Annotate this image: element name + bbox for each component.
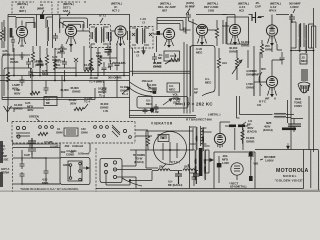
text 0.02 mmf xyxy=(64,144,83,148)
junction dots bus y75 xyxy=(13,75,15,77)
text 6MF 450V each xyxy=(263,121,273,132)
svg-text:/ 2: / 2 xyxy=(136,53,139,57)
rounded enclosure bottom left xyxy=(2,88,95,100)
tube V3 IF 6C7 xyxy=(115,26,126,41)
text 0.1 MEG in loop xyxy=(205,77,212,84)
text 3.75 MEG xyxy=(42,69,49,76)
plug contacts xyxy=(104,161,116,179)
resistor far-left edge xyxy=(0,22,3,48)
IFT2 assembly xyxy=(130,27,153,49)
6F5 plate to AF2 grid wire xyxy=(259,72,262,86)
wire V5 to V6 xyxy=(208,26,230,30)
horizontal bus y97 left xyxy=(2,97,130,99)
horizontal bus y115 double xyxy=(130,115,197,117)
text 45000 big area xyxy=(70,86,80,93)
electrolytic caps 18MF black bars xyxy=(225,125,248,128)
speaker lead verticals xyxy=(312,26,316,48)
text 10000 TL4 lower-left xyxy=(98,87,107,98)
label box RF stage xyxy=(12,2,52,14)
switch contacts left box xyxy=(69,162,81,181)
cap at plate V7 xyxy=(289,14,295,23)
tube V7 AF2 6F6 xyxy=(266,25,277,40)
arrow junction dots on bus xyxy=(64,80,66,82)
svg-text:X: X xyxy=(274,97,276,101)
switch box inner rect xyxy=(68,161,82,181)
text 45000 ohms 1W xyxy=(100,102,109,113)
spark plate caps xyxy=(28,138,36,155)
cap .01 near V4 xyxy=(152,53,163,63)
svg-text:WF: WF xyxy=(265,97,270,101)
text 500 MMF mid-right xyxy=(252,69,260,76)
osc cap xyxy=(53,33,58,41)
text 1500 ohms xyxy=(246,82,254,89)
junction dots right xyxy=(290,50,292,52)
power transformer core black bar xyxy=(199,148,203,176)
coil can rect over V1 xyxy=(16,18,34,29)
buffer coil right xyxy=(183,165,198,171)
top wires segments right half xyxy=(196,15,289,17)
wire bottom bus left join xyxy=(130,171,152,181)
resistor x91 xyxy=(89,58,92,68)
text 150mmF + cap blob xyxy=(142,79,158,94)
rect enclosure xyxy=(214,152,255,189)
text 2.75 meg xyxy=(54,60,64,67)
vertical drop x152 xyxy=(151,96,153,111)
IFT1 assembly xyxy=(90,25,111,48)
wire stub xyxy=(218,156,220,183)
tube V10 rect 6Z4 xyxy=(231,163,243,180)
arcs from center rail to vol area xyxy=(130,82,154,96)
vertical wires left of switch box xyxy=(22,150,60,184)
label DET2 xyxy=(204,2,218,13)
vibrator reed lines xyxy=(160,142,180,162)
text 5.1R 100 xyxy=(55,47,67,54)
horizontal bus y118 right xyxy=(291,118,303,120)
cap x110 xyxy=(108,60,113,70)
resistor R3 under osc xyxy=(45,48,48,76)
resistor x55 xyxy=(53,60,56,70)
text 0.1 MF 400V xyxy=(84,96,93,109)
grid return arrow xyxy=(142,47,145,55)
right vertical rail inner xyxy=(290,14,292,150)
V8 grid top wire xyxy=(272,60,282,76)
right area caps near V7 xyxy=(280,52,285,65)
text 10,000 ohms below xyxy=(153,61,170,68)
buffer cap 2 xyxy=(193,171,200,185)
text 0.5 MF top xyxy=(44,140,53,144)
wire V6 plate up xyxy=(222,15,235,25)
antenna symbol xyxy=(4,106,12,112)
padder trimmer X xyxy=(74,58,78,76)
text TO A battery column xyxy=(1,144,8,162)
cap below transformer xyxy=(192,174,197,186)
svg-text:CAP: CAP xyxy=(24,153,30,157)
2.5 V label xyxy=(108,49,112,56)
buffer coil left xyxy=(152,165,182,171)
vertical resistor 15000 xyxy=(241,127,244,144)
tone control cap bars right xyxy=(288,119,301,133)
antenna down-lead xyxy=(7,112,9,122)
resistor v at x100 xyxy=(98,56,101,66)
cap C mid2 xyxy=(115,58,120,71)
text 0.5 MF each xyxy=(168,180,182,187)
text .001 MFD 1600 xyxy=(222,154,229,165)
text 10000 ohms italic xyxy=(153,61,162,68)
antenna coil L1 left edge xyxy=(4,20,5,48)
wire A lead lower xyxy=(13,158,60,184)
0.25 meg resistor box right xyxy=(300,54,308,64)
resistor column x219 xyxy=(217,48,227,96)
junction dots bottom-left xyxy=(45,157,47,159)
svg-text:MF: MF xyxy=(46,101,50,105)
horizontal bus y80 xyxy=(0,80,130,82)
cap 0.3MF xyxy=(60,46,65,53)
coupling cap V6-V7 big xyxy=(252,12,262,23)
rf choke coil right xyxy=(274,113,294,117)
text 15000 ohms xyxy=(246,136,255,143)
wire y50 right xyxy=(291,50,314,52)
vertical bundle right of V5 xyxy=(223,20,226,44)
power transformer lower windings xyxy=(190,150,214,180)
svg-text:300 OHMS: 300 OHMS xyxy=(108,76,122,80)
right vertical rail outer xyxy=(313,8,315,152)
tube V6 AF1 6C5 xyxy=(229,24,240,39)
tube V5 DET2 6H6 xyxy=(196,24,207,39)
speaker cone hatch xyxy=(301,85,309,93)
1.5MF box upper left mid xyxy=(44,97,57,106)
vibrator left resistor xyxy=(146,131,149,150)
speaker field stack xyxy=(301,70,308,80)
wire y108 left xyxy=(8,108,44,112)
inner rounded box lamp xyxy=(4,68,32,96)
cap 4.50mmf xyxy=(44,168,49,176)
text 18 MF xyxy=(247,119,252,126)
svg-text:2 V: 2 V xyxy=(60,60,64,64)
wire IFT1 to V3 xyxy=(111,30,116,32)
electrolytic black bar right xyxy=(282,128,296,131)
plate wire V2 to IFT1 xyxy=(77,24,90,31)
resistor horizontal small xyxy=(74,107,84,110)
plug box right xyxy=(100,159,122,183)
junction dot xyxy=(129,179,131,181)
V4 grid top wires nested xyxy=(157,18,186,35)
text 10,000 ohms + TL xyxy=(148,83,157,94)
text 600 ohms xyxy=(10,57,18,64)
tube V3 below pins xyxy=(117,37,125,46)
vibrator enclosure box xyxy=(146,131,193,168)
text RED TONE CONT xyxy=(294,97,302,108)
top bus segment left xyxy=(8,14,56,16)
left vertical rail xyxy=(7,15,9,99)
label 500mmf xyxy=(289,2,301,13)
svg-text:MEG: MEG xyxy=(54,63,61,67)
tube V6 pins below xyxy=(231,36,240,45)
osc coil L2 xyxy=(48,20,49,46)
pot resistor column x237 with arrow xyxy=(232,50,242,80)
scan noise overlay xyxy=(0,0,1,1)
AVC resistor network box xyxy=(164,51,180,61)
text 450V each xyxy=(247,126,257,133)
text 800 mmf xyxy=(260,155,276,162)
resistor 10000 ohms mid xyxy=(84,63,94,72)
V7 cathode resistor xyxy=(260,40,263,58)
cap y84 x104 xyxy=(102,84,107,94)
tube V2 DET1 6A8 xyxy=(65,25,76,40)
text 6,000 ohms xyxy=(52,55,60,62)
tube V4 del-av-amp 6B7 xyxy=(163,28,174,43)
tube V1 cathode parts xyxy=(18,40,25,46)
caps stack left of switch box xyxy=(20,161,25,178)
text 4000 ohms xyxy=(246,69,254,76)
wire harness bundle verticals xyxy=(184,42,190,114)
bus pair right extension xyxy=(130,71,191,73)
text 1 MF 600V xyxy=(14,88,21,95)
extra horizontal link y58 xyxy=(100,57,117,59)
label AF1 xyxy=(238,2,249,13)
V7 pin wires down xyxy=(272,44,282,52)
plug wires right xyxy=(117,170,152,189)
text 45,000 ohms 2W xyxy=(60,88,69,92)
text GANG above box xyxy=(66,149,77,156)
wire A lead xyxy=(13,141,58,144)
V8 pins below xyxy=(268,88,277,97)
svg-text:TL-4: TL-4 xyxy=(99,93,105,97)
top bus segment mid xyxy=(56,14,130,16)
inner rect over V1 xyxy=(26,23,35,29)
second center vertical rail xyxy=(192,19,194,112)
speaker cone xyxy=(298,82,310,93)
text 2.2R xyxy=(36,59,44,66)
text RECT 6Z4 metal xyxy=(228,181,246,188)
black square caps on right rail xyxy=(249,152,253,157)
text 0.1/2 MEG in loop xyxy=(196,47,203,54)
V5 plate circles xyxy=(199,27,201,29)
dark padder blob xyxy=(40,15,44,20)
black dot under vol xyxy=(150,108,154,112)
text 200 ohms xyxy=(112,61,126,65)
arrow down at 288,148 xyxy=(286,143,289,149)
diode load resistor right of V5 xyxy=(215,20,218,46)
transformer core to tube wires xyxy=(204,132,212,160)
resistor horizontal y92 x36 xyxy=(30,91,40,94)
vertical wires x52 x60 xyxy=(53,15,60,49)
svg-text:MF: MF xyxy=(60,49,64,53)
volume control unit box xyxy=(137,97,188,109)
svg-text:OHM: OHM xyxy=(265,47,272,51)
vertical drop wires tube row to bus xyxy=(14,44,124,81)
dashed divider at x96 xyxy=(95,148,97,192)
cathode resistor R2 xyxy=(31,46,34,68)
text VOL CONT xyxy=(173,93,180,100)
text BTC xyxy=(162,160,190,168)
small cap bottom right area xyxy=(248,151,254,160)
small caps row near y64 xyxy=(26,58,31,68)
label AF2 xyxy=(269,2,281,13)
caps left of V3 xyxy=(109,32,112,45)
tube V9 bias rect 6H6 xyxy=(214,133,225,148)
dashed firewall line vertical xyxy=(12,140,14,192)
vertical wires right of loop xyxy=(248,46,260,96)
cap x40 xyxy=(38,58,43,68)
bottom feed bus xyxy=(130,128,193,150)
text 10,000 ohm box xyxy=(34,60,43,67)
text 150 mmf with arrow xyxy=(0,0,1,1)
bottom right verticals xyxy=(311,150,319,190)
dial lamp circle in gang area xyxy=(17,135,20,138)
label 50mmf xyxy=(185,1,195,15)
switch box outer xyxy=(60,158,90,185)
svg-text:(MMF): (MMF) xyxy=(252,72,260,76)
label IFT1 with arrow xyxy=(99,14,107,23)
buffer cap 1 xyxy=(175,171,182,184)
arrow out of switch box xyxy=(83,167,89,169)
resistor h near 171,59 xyxy=(169,58,179,61)
nested feedback loops above V2 xyxy=(60,18,88,28)
vertical line x132 xyxy=(132,48,134,76)
wire from gang to right xyxy=(135,130,152,136)
diagonal wire from plug box xyxy=(122,150,142,186)
text 0.25 400V xyxy=(25,101,34,112)
cap pair under V1 xyxy=(28,68,33,78)
text .05 MF TC-4 xyxy=(68,98,77,105)
text 100 MMF xyxy=(96,51,103,58)
text HOT A TERM xyxy=(1,167,10,174)
text .002 xyxy=(60,150,74,154)
rounded enclosure left RF unit xyxy=(2,55,30,100)
resistor in lamp box xyxy=(6,68,9,90)
25mf cap below vol box xyxy=(143,108,160,114)
left edge black mark xyxy=(0,141,3,163)
B+ center vertical rail xyxy=(129,14,131,118)
extra bus y72 xyxy=(30,72,130,74)
label IF amp xyxy=(111,2,122,13)
caps under bus y84 xyxy=(44,84,49,94)
rect output line to right xyxy=(250,150,304,189)
wires below gang box xyxy=(13,143,90,158)
svg-text:(OHM): (OHM) xyxy=(35,63,43,67)
ground V1 cathode xyxy=(19,52,25,59)
big shield loop around det2 area xyxy=(191,46,216,97)
tube V7 pins below xyxy=(268,36,277,46)
iron core block xyxy=(10,28,13,38)
extend left rail xyxy=(7,98,10,106)
dark junction blob left of V4 xyxy=(157,31,161,35)
cap right of V3 xyxy=(128,31,131,40)
label box DET1 xyxy=(58,2,86,16)
wire IFT2 to V4 xyxy=(153,33,163,35)
left wire into choke xyxy=(237,96,273,118)
cap .05 mid xyxy=(102,62,112,76)
output transformer T-OUT xyxy=(291,22,314,53)
black mark bottom-left corner xyxy=(0,172,3,187)
vibrator circle xyxy=(154,132,187,165)
cap C under V2 xyxy=(62,58,67,81)
text 0.1 under xyxy=(89,76,104,83)
B minus bus bottom xyxy=(96,188,250,190)
text 4.50 MMF xyxy=(42,178,49,185)
enclosure around V6 xyxy=(227,17,249,44)
text 30000 ohms xyxy=(229,46,238,53)
cap 25mf xyxy=(154,104,159,112)
text 4.25 meg left xyxy=(2,49,10,56)
text 50 ohms to w each xyxy=(133,153,145,164)
trimmer label 1-1/2-2 xyxy=(140,17,146,24)
cap in lamp box xyxy=(20,76,25,86)
extra horizontal link y68 xyxy=(56,67,76,69)
junction dots bus y80 xyxy=(54,80,56,82)
vertical at x156 xyxy=(156,36,158,52)
right column extra verticals xyxy=(288,96,310,150)
horizontal wire y110 mid xyxy=(130,110,153,112)
V8 wiring to vol control xyxy=(254,82,266,96)
text 10000 ohms left xyxy=(14,103,23,110)
cap left of V1 xyxy=(11,36,15,52)
grid cap wire tube V1 xyxy=(21,21,23,26)
text 250 ohms small xyxy=(265,44,272,51)
vertical wires from electrolytics xyxy=(235,128,243,150)
vertical wires below bus xyxy=(46,76,117,98)
text RFC xyxy=(257,100,267,108)
wire V7 plate up xyxy=(271,15,273,25)
horizontal bus y75 xyxy=(0,75,130,77)
label del av amp xyxy=(158,2,176,13)
diagonal arrow near 125,90 xyxy=(122,87,130,94)
tube V5 pins below xyxy=(198,36,207,45)
arrow pointer to caps xyxy=(242,122,246,125)
text WF marks under V8 xyxy=(265,97,276,101)
power transformer T-PWR upper windings xyxy=(190,126,207,189)
bold cap top x107 xyxy=(105,45,112,56)
wire below plug xyxy=(106,174,130,185)
50mmf cap + wire to V5 grid xyxy=(186,12,198,25)
grid wire tube V2 xyxy=(60,22,67,27)
black electrolytic blob xyxy=(217,163,222,167)
tube V1 RF 6M7 xyxy=(16,26,27,41)
vibrator inner coil xyxy=(158,135,169,142)
volume control area text 0.2 meg xyxy=(167,83,180,92)
top wires over V1 xyxy=(8,16,16,18)
text 10000 ohms top xyxy=(241,40,250,47)
text 0.5 MF bottom loop xyxy=(194,87,198,94)
text 25MF 25CV xyxy=(173,97,181,104)
tube V8 6F5 xyxy=(266,76,277,91)
wire y150 to right edge xyxy=(304,149,319,151)
V9 top wire xyxy=(220,122,230,133)
text 10,000 ohms TL xyxy=(120,85,129,96)
transformer core hatch xyxy=(201,127,204,144)
coupling cap V4-V5 xyxy=(180,28,191,36)
tube V2 below pins xyxy=(66,39,76,47)
text 1.45/2 trimmer xyxy=(134,50,140,57)
bottom scan edge xyxy=(0,190,320,192)
paper background xyxy=(0,0,320,192)
hook wire right of V1 xyxy=(37,15,53,47)
tube V4 below pins xyxy=(165,40,174,48)
label 05 cap xyxy=(255,1,261,8)
